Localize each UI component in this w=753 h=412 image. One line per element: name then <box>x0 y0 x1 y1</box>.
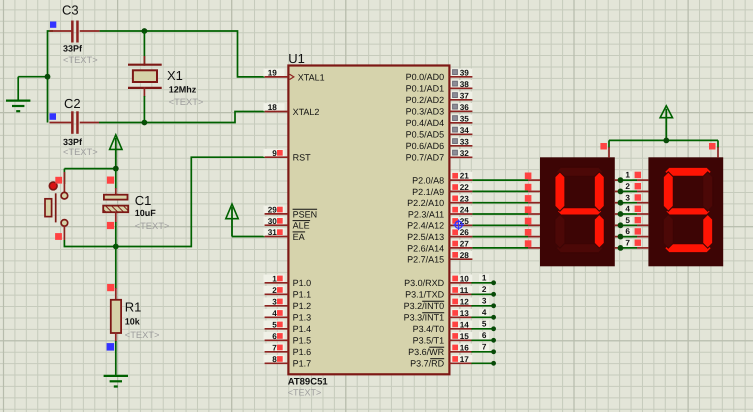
pin 16 P3.6/WR <box>451 344 473 352</box>
wire <box>64 157 264 246</box>
wire <box>64 168 115 170</box>
svg-text:X1: X1 <box>167 68 183 83</box>
red square DS2 pin 6 <box>635 228 641 234</box>
net label 1 <box>479 274 489 282</box>
svg-text:7: 7 <box>272 343 277 352</box>
pin 11 P3.1/TXD <box>451 286 473 294</box>
svg-text:38: 38 <box>460 80 470 89</box>
net label 4 <box>479 309 489 317</box>
crystal X1 <box>143 31 145 65</box>
wire <box>63 169 65 184</box>
pin 31 EA <box>264 228 285 236</box>
wire P3.5 stub net <box>471 339 493 341</box>
wire P3.7 stub net <box>471 362 493 364</box>
svg-text:15: 15 <box>460 332 470 341</box>
svg-text:8: 8 <box>272 355 277 364</box>
svg-text:P1.7: P1.7 <box>293 359 312 369</box>
svg-text:22: 22 <box>460 183 470 192</box>
svg-text:33Pf: 33Pf <box>63 44 83 54</box>
wire <box>232 236 265 238</box>
wire DS1-DS2 segment 6 <box>615 236 621 238</box>
red square display-left pin 4 <box>525 206 532 213</box>
pin 4 P1.3 <box>264 309 285 317</box>
wire <box>48 31 54 123</box>
wire DS1-DS2 segment 3 <box>615 202 621 204</box>
svg-text:5: 5 <box>272 320 277 329</box>
wire DS1-DS2 segment 5 <box>615 224 621 226</box>
blue square R1 bottom pin <box>107 343 115 351</box>
node C1 bottom junction <box>113 244 119 250</box>
resistor R1 <box>115 247 117 290</box>
svg-text:<TEXT>: <TEXT> <box>63 147 98 157</box>
node X1 bottom junction <box>142 120 148 126</box>
svg-text:EA: EA <box>293 232 305 242</box>
wire P3.0 stub net <box>471 282 493 284</box>
svg-text:31: 31 <box>268 228 278 237</box>
svg-text:P2.4/A12: P2.4/A12 <box>407 221 444 231</box>
wire P3.4 stub net <box>471 328 493 330</box>
svg-text:26: 26 <box>460 228 470 237</box>
svg-text:10: 10 <box>460 274 470 283</box>
svg-text:XTAL2: XTAL2 <box>293 107 320 117</box>
node ground-junction <box>45 74 51 80</box>
wire <box>100 31 265 77</box>
red square C1 bottom pin <box>107 222 114 229</box>
svg-text:P0.4/AD4: P0.4/AD4 <box>406 118 445 128</box>
svg-text:1: 1 <box>272 274 277 283</box>
pin 6 P1.5 <box>264 332 285 340</box>
svg-text:6: 6 <box>272 332 277 341</box>
net label 5 <box>479 320 489 328</box>
wire DS1-DS2 segment 2 <box>615 190 621 192</box>
svg-text:P0.0/AD0: P0.0/AD0 <box>406 72 445 82</box>
node C1 top junction <box>113 166 119 172</box>
svg-text:P3.0/RXD: P3.0/RXD <box>404 278 445 288</box>
pin 14 P3.4/T0 <box>451 321 473 329</box>
svg-text:P2.6/A14: P2.6/A14 <box>407 243 444 253</box>
ground (below R1) <box>104 375 128 377</box>
svg-text:17: 17 <box>460 355 470 364</box>
pin 18 XTAL2 <box>264 103 285 111</box>
red square button bottom pin <box>55 233 62 240</box>
pin 38 P0.1/AD1 <box>451 80 473 88</box>
wire P2.4 to display <box>472 224 528 226</box>
svg-text:XTAL1: XTAL1 <box>298 72 325 82</box>
svg-text:R1: R1 <box>125 300 142 315</box>
pin 12 P3.2/INT0 <box>451 298 473 306</box>
svg-text:<TEXT>: <TEXT> <box>288 387 322 397</box>
svg-text:13: 13 <box>460 309 470 318</box>
svg-text:P2.2/A10: P2.2/A10 <box>407 198 444 208</box>
pin 23 P2.2/A10 <box>451 194 473 202</box>
net label 2 <box>479 286 489 294</box>
pin 26 P2.5/A13 <box>451 228 473 236</box>
pin 21 P2.0/A8 <box>451 172 473 180</box>
svg-text:5: 5 <box>482 320 487 329</box>
svg-text:5: 5 <box>625 216 630 225</box>
svg-text:C2: C2 <box>64 96 81 111</box>
wire P2.5 to display <box>472 236 528 238</box>
pin 9 RST <box>264 149 285 157</box>
svg-text:27: 27 <box>460 240 470 249</box>
svg-text:30: 30 <box>268 217 278 226</box>
pin 36 P0.3/AD3 <box>451 103 473 111</box>
net label 3 <box>479 297 489 305</box>
svg-text:2: 2 <box>625 182 630 191</box>
svg-text:P0.5/AD5: P0.5/AD5 <box>406 130 445 140</box>
pin 39 P0.0/AD0 <box>451 69 473 77</box>
svg-text:P1.3: P1.3 <box>293 313 312 323</box>
svg-text:P3.7/RD: P3.7/RD <box>410 359 445 369</box>
wire DS1-DS2 segment 1 <box>615 179 621 181</box>
svg-text:3: 3 <box>625 193 630 202</box>
capacitor C2 <box>50 122 72 124</box>
pin 8 P1.7 <box>264 355 285 363</box>
red square display-left pin 3 <box>525 195 532 202</box>
svg-text:RST: RST <box>293 153 312 163</box>
red square display-left pin 7 <box>525 240 532 247</box>
net label 6 <box>479 332 489 340</box>
wire P2.0 to display <box>472 179 528 181</box>
red square DS2 top pin <box>709 143 716 150</box>
pin 28 P2.7/A15 <box>451 251 473 259</box>
svg-text:P1.5: P1.5 <box>293 336 312 346</box>
svg-text:C1: C1 <box>135 193 152 208</box>
svg-text:4: 4 <box>482 308 487 317</box>
pin 27 P2.6/A14 <box>451 240 473 248</box>
pin 17 P3.7/RD <box>451 355 473 363</box>
svg-text:P3.1/TXD: P3.1/TXD <box>405 290 445 300</box>
pin 33 P0.6/AD6 <box>451 138 473 146</box>
svg-text:P0.7/AD7: P0.7/AD7 <box>406 153 445 163</box>
svg-text:P1.4: P1.4 <box>293 324 312 334</box>
svg-text:33Pf: 33Pf <box>63 137 83 147</box>
wire P3.2 stub net <box>471 305 493 307</box>
power VCC (above C1) <box>110 135 122 150</box>
svg-text:1: 1 <box>482 274 487 283</box>
svg-text:10uF: 10uF <box>135 208 157 218</box>
svg-text:P2.0/A8: P2.0/A8 <box>412 176 444 186</box>
svg-text:U1: U1 <box>288 51 305 66</box>
wire DS1-DS2 segment 4 <box>615 213 621 215</box>
svg-text:P2.7/A15: P2.7/A15 <box>407 255 444 265</box>
red square display-left pin 1 <box>525 173 532 180</box>
svg-text:AT89C51: AT89C51 <box>288 377 329 388</box>
pin 10 P3.0/RXD <box>451 275 473 283</box>
svg-text:34: 34 <box>460 126 470 135</box>
power VCC (EA) <box>226 204 238 219</box>
wire P2.6 to display <box>472 247 528 249</box>
svg-text:9: 9 <box>272 149 277 158</box>
svg-text:21: 21 <box>460 172 470 181</box>
red square DS2 pin 4 <box>635 206 641 212</box>
red square display-left pin 5 <box>525 218 532 225</box>
svg-text:3: 3 <box>272 297 277 306</box>
op-amp U1 AT89C51 body <box>288 66 449 375</box>
svg-text:P2.3/A11: P2.3/A11 <box>408 209 444 219</box>
svg-text:2: 2 <box>482 285 487 294</box>
svg-text:36: 36 <box>460 103 470 112</box>
pin 5 P1.4 <box>264 321 285 329</box>
svg-text:35: 35 <box>460 114 470 123</box>
svg-text:P2.1/A9: P2.1/A9 <box>412 187 444 197</box>
svg-text:14: 14 <box>460 320 470 329</box>
wire <box>18 76 47 78</box>
button knob (red circle) <box>49 182 57 190</box>
wire P2.2 to display <box>472 202 528 204</box>
svg-text:3: 3 <box>482 297 487 306</box>
pin 32 P0.7/AD7 <box>451 149 473 157</box>
red square R1 top pin <box>107 284 114 291</box>
svg-text:P3.6/WR: P3.6/WR <box>408 347 445 357</box>
svg-text:24: 24 <box>460 206 470 215</box>
pin 24 P2.3/A11 <box>451 206 473 214</box>
net label 3 (displays) <box>623 194 633 202</box>
svg-text:7: 7 <box>625 239 630 248</box>
svg-text:P1.2: P1.2 <box>293 301 312 311</box>
pin 37 P0.2/AD2 <box>451 92 473 100</box>
wire P3.3 stub net <box>471 316 493 318</box>
svg-text:P0.2/AD2: P0.2/AD2 <box>406 95 445 105</box>
pin 29 PSEN <box>264 206 285 214</box>
pin 2 P1.1 <box>264 286 285 294</box>
svg-text:C3: C3 <box>62 3 79 18</box>
svg-text:ALE: ALE <box>293 221 310 231</box>
net label 5 (displays) <box>623 217 633 225</box>
red square DS2 pin 3 <box>635 194 641 200</box>
red square DS1 top pin <box>600 143 607 150</box>
svg-text:P2.5/A13: P2.5/A13 <box>407 232 444 242</box>
svg-text:6: 6 <box>625 227 630 236</box>
red square C1 top pin <box>107 177 114 184</box>
wire DS1-DS2 segment 7 <box>615 247 621 249</box>
svg-text:<TEXT>: <TEXT> <box>125 330 160 340</box>
svg-text:16: 16 <box>460 343 470 352</box>
svg-text:37: 37 <box>460 91 470 100</box>
red square display-left pin 2 <box>525 184 532 191</box>
pin 1 P1.0 <box>264 275 285 283</box>
push button <box>63 172 65 192</box>
svg-text:<TEXT>: <TEXT> <box>135 221 170 231</box>
svg-text:P1.1: P1.1 <box>293 290 312 300</box>
node X1 top junction <box>142 28 148 34</box>
svg-text:<TEXT>: <TEXT> <box>63 55 98 65</box>
wire P3.1 stub net <box>471 293 493 295</box>
svg-text:12: 12 <box>460 297 470 306</box>
red square display-left pin 6 <box>525 229 532 236</box>
capacitor C3 <box>50 30 72 32</box>
svg-text:4: 4 <box>625 205 630 214</box>
svg-text:6: 6 <box>482 331 487 340</box>
svg-text:P0.1/AD1: P0.1/AD1 <box>406 84 445 94</box>
svg-text:P3.5/T1: P3.5/T1 <box>413 336 445 346</box>
svg-text:29: 29 <box>268 206 278 215</box>
svg-text:33: 33 <box>460 137 470 146</box>
svg-text:<TEXT>: <TEXT> <box>169 97 204 107</box>
red square DS2 pin 1 <box>635 172 641 178</box>
pin 22 P2.1/A9 <box>451 183 473 191</box>
red square button top pin <box>55 177 62 184</box>
blue square C2 pin <box>50 113 57 120</box>
wire <box>99 112 265 123</box>
svg-text:P0.3/AD3: P0.3/AD3 <box>406 107 445 117</box>
svg-text:11: 11 <box>460 286 469 295</box>
svg-text:P3.4/T0: P3.4/T0 <box>413 324 445 334</box>
pin 13 P3.3/INT1 <box>451 309 473 317</box>
pin 7 P1.6 <box>264 344 285 352</box>
net label 4 (displays) <box>623 205 633 213</box>
svg-text:P1.6: P1.6 <box>293 347 312 357</box>
pin 35 P0.4/AD4 <box>451 115 473 123</box>
svg-text:19: 19 <box>268 69 278 78</box>
pin 19 XTAL1 <box>264 69 285 77</box>
svg-text:39: 39 <box>460 68 470 77</box>
svg-text:12Mhz: 12Mhz <box>169 85 197 95</box>
power VCC (displays) <box>660 106 672 118</box>
svg-text:PSEN: PSEN <box>293 209 318 219</box>
wire P2.1 to display <box>472 190 528 192</box>
net label 2 (displays) <box>623 183 633 191</box>
net label 1 (displays) <box>623 171 633 179</box>
svg-text:23: 23 <box>460 194 470 203</box>
blue square C3 pin <box>50 22 56 28</box>
red square DS2 pin 7 <box>635 240 641 246</box>
wire display top supply <box>608 140 610 148</box>
svg-text:2: 2 <box>272 286 277 295</box>
svg-text:10k: 10k <box>125 317 141 327</box>
pin 34 P0.5/AD5 <box>451 126 473 134</box>
net label 7 (displays) <box>623 239 633 247</box>
7-segment display DS2 (digit 5) <box>648 157 723 266</box>
net label 7 <box>479 343 489 351</box>
7-segment display DS1 (digit 4) <box>540 157 615 266</box>
svg-text:32: 32 <box>460 149 470 158</box>
red square DS2 pin 2 <box>635 183 641 189</box>
svg-text:7: 7 <box>482 343 487 352</box>
ground <box>17 77 19 100</box>
capacitor C1 (electrolytic) <box>115 169 117 189</box>
pin 25 P2.4/A12 <box>451 217 473 225</box>
origin marker <box>455 221 462 228</box>
node display supply junction <box>663 138 669 144</box>
svg-text:P1.0: P1.0 <box>293 278 312 288</box>
pin 15 P3.5/T1 <box>451 332 473 340</box>
net label 6 (displays) <box>623 228 633 236</box>
red square DS2 pin 5 <box>635 217 641 223</box>
pin 30 ALE <box>264 217 285 225</box>
svg-text:4: 4 <box>272 309 277 318</box>
svg-text:P0.6/AD6: P0.6/AD6 <box>406 141 445 151</box>
wire P3.6 stub net <box>471 351 493 353</box>
svg-text:1: 1 <box>625 171 630 180</box>
wire P2.3 to display <box>472 213 528 215</box>
pin 3 P1.2 <box>264 298 285 306</box>
svg-text:28: 28 <box>460 251 470 260</box>
svg-text:18: 18 <box>268 103 278 112</box>
svg-text:P3.3/INT1: P3.3/INT1 <box>404 313 445 323</box>
svg-text:P3.2/INT0: P3.2/INT0 <box>404 301 445 311</box>
